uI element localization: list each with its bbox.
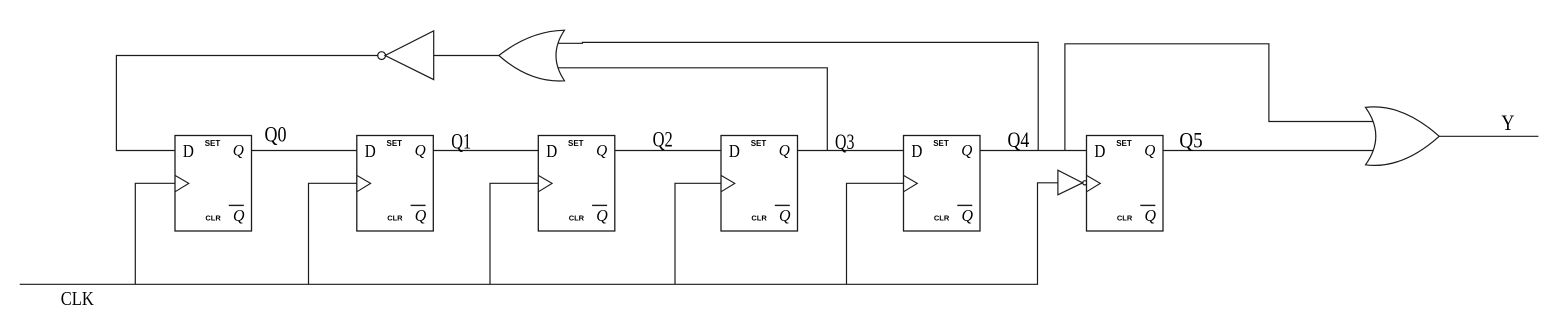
svg-text:Q5: Q5 [1179,128,1202,153]
svg-text:Q: Q [779,206,791,225]
svg-text:D: D [365,141,376,161]
svg-text:SET: SET [387,139,403,148]
svg-text:Q4: Q4 [1008,127,1030,152]
svg-text:Q: Q [1144,142,1156,159]
svg-text:D: D [729,141,740,161]
svg-text:Q1: Q1 [451,128,471,153]
svg-text:Q: Q [596,206,608,225]
svg-text:Q: Q [962,206,974,225]
svg-text:Q: Q [779,142,791,159]
svg-text:Y: Y [1501,110,1514,135]
svg-text:SET: SET [933,139,949,148]
svg-text:Q: Q [1145,206,1157,225]
svg-text:SET: SET [751,139,767,148]
svg-text:Q2: Q2 [653,127,673,152]
svg-text:CLR: CLR [1117,214,1133,223]
svg-text:Q: Q [415,206,427,225]
svg-text:CLR: CLR [751,214,767,223]
svg-text:CLR: CLR [387,214,403,223]
svg-text:CLR: CLR [934,214,950,223]
svg-text:D: D [546,141,557,161]
svg-text:SET: SET [1116,139,1132,148]
svg-text:Q0: Q0 [265,121,287,146]
svg-text:Q: Q [961,142,973,159]
svg-text:CLR: CLR [569,214,585,223]
svg-text:Q: Q [596,142,608,159]
svg-text:D: D [911,141,922,161]
svg-text:Q: Q [233,206,245,225]
svg-text:Q: Q [233,142,245,159]
svg-text:D: D [1094,141,1105,161]
svg-text:Q: Q [415,142,427,159]
svg-text:SET: SET [205,139,221,148]
svg-text:CLK: CLK [61,289,94,310]
svg-text:CLR: CLR [205,214,221,223]
svg-text:SET: SET [568,139,584,148]
svg-text:D: D [183,141,194,161]
svg-text:Q3: Q3 [835,129,854,154]
